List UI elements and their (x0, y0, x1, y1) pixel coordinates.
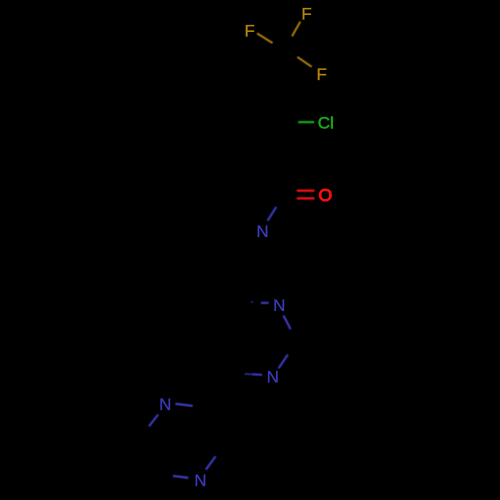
bond C6=N2 inner stub (pyrimidine, faint) (251, 301, 254, 303)
bond C8-N3 half (pyrimidine) (279, 355, 288, 369)
svg-text:Cl: Cl (318, 114, 334, 133)
bond N5-C12 half (pyrazine, left) (173, 476, 188, 478)
svg-text:F: F (301, 5, 311, 24)
svg-text:F: F (317, 65, 327, 84)
svg-text:F: F (245, 21, 255, 40)
bond N1(amide)-C1 half (268, 207, 277, 221)
bond C9-N3 half (left of N3, faint far part) (245, 373, 253, 375)
svg-text:O: O (319, 185, 333, 205)
bond C9-N3 half (left of N3) (253, 373, 263, 376)
bond C7-F1 (CF3 top) (292, 22, 300, 37)
svg-text:N: N (256, 222, 268, 241)
double bond C1=O1 upper line (297, 190, 315, 192)
bond N4-C10 half (pyrazine, to ring-attachment carbon) (175, 404, 192, 406)
svg-text:N: N (273, 296, 285, 315)
bond N2-C8 half (to C2 of pyrimidine) (283, 315, 290, 329)
svg-text:N: N (267, 367, 279, 386)
svg-text:N: N (194, 471, 206, 490)
bond N4-C11 half (pyrazine, down-left) (149, 415, 158, 427)
bond C7-F3 (CF3 lower right) (297, 57, 311, 67)
bond C7-F2 (CF3 left) (257, 33, 272, 43)
bond N5-C13 half (pyrazine, up-right) (206, 456, 216, 469)
double bond C1=O1 lower line (297, 197, 315, 199)
bond C6-N2 half (pyrimidine left of N) (261, 302, 269, 304)
svg-text:N: N (159, 395, 171, 414)
bond C2-Cl1 (298, 121, 314, 123)
